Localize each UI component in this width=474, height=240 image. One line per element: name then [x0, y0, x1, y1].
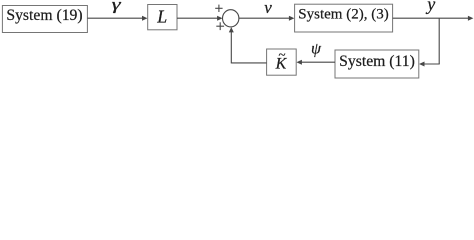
node: feedback branch on y — [438, 18, 440, 64]
svg-text:ψ: ψ — [311, 41, 322, 58]
svg-text:L: L — [156, 7, 167, 27]
wire y: System (2), (3) to output — [393, 16, 474, 21]
svg-text:γ: γ — [112, 0, 122, 13]
wire: L to summing junction — [177, 16, 223, 21]
wire: K tilde to summing junction — [229, 27, 267, 63]
summing junction — [223, 10, 239, 27]
block L — [148, 5, 177, 30]
wire psi: System (11) to K tilde — [296, 60, 335, 65]
svg-text:v: v — [264, 0, 272, 17]
block System (11) — [335, 50, 419, 78]
plus sign upper input — [215, 5, 222, 12]
svg-text:System (19): System (19) — [6, 7, 82, 24]
plus sign lower input — [216, 22, 224, 30]
wire gamma: System (19) to L — [87, 16, 147, 21]
block System (2), (3) — [295, 4, 393, 32]
svg-text:System (2), (3): System (2), (3) — [298, 7, 388, 23]
svg-text:System (11): System (11) — [339, 53, 415, 70]
svg-text:y: y — [425, 0, 435, 14]
block System (19) — [2, 6, 87, 33]
svg-text:~: ~ — [278, 47, 285, 62]
wire: branch down into System (11) — [419, 62, 440, 67]
block K tilde — [267, 47, 297, 76]
wire v: summing junction to System (2), (3) — [239, 16, 295, 21]
